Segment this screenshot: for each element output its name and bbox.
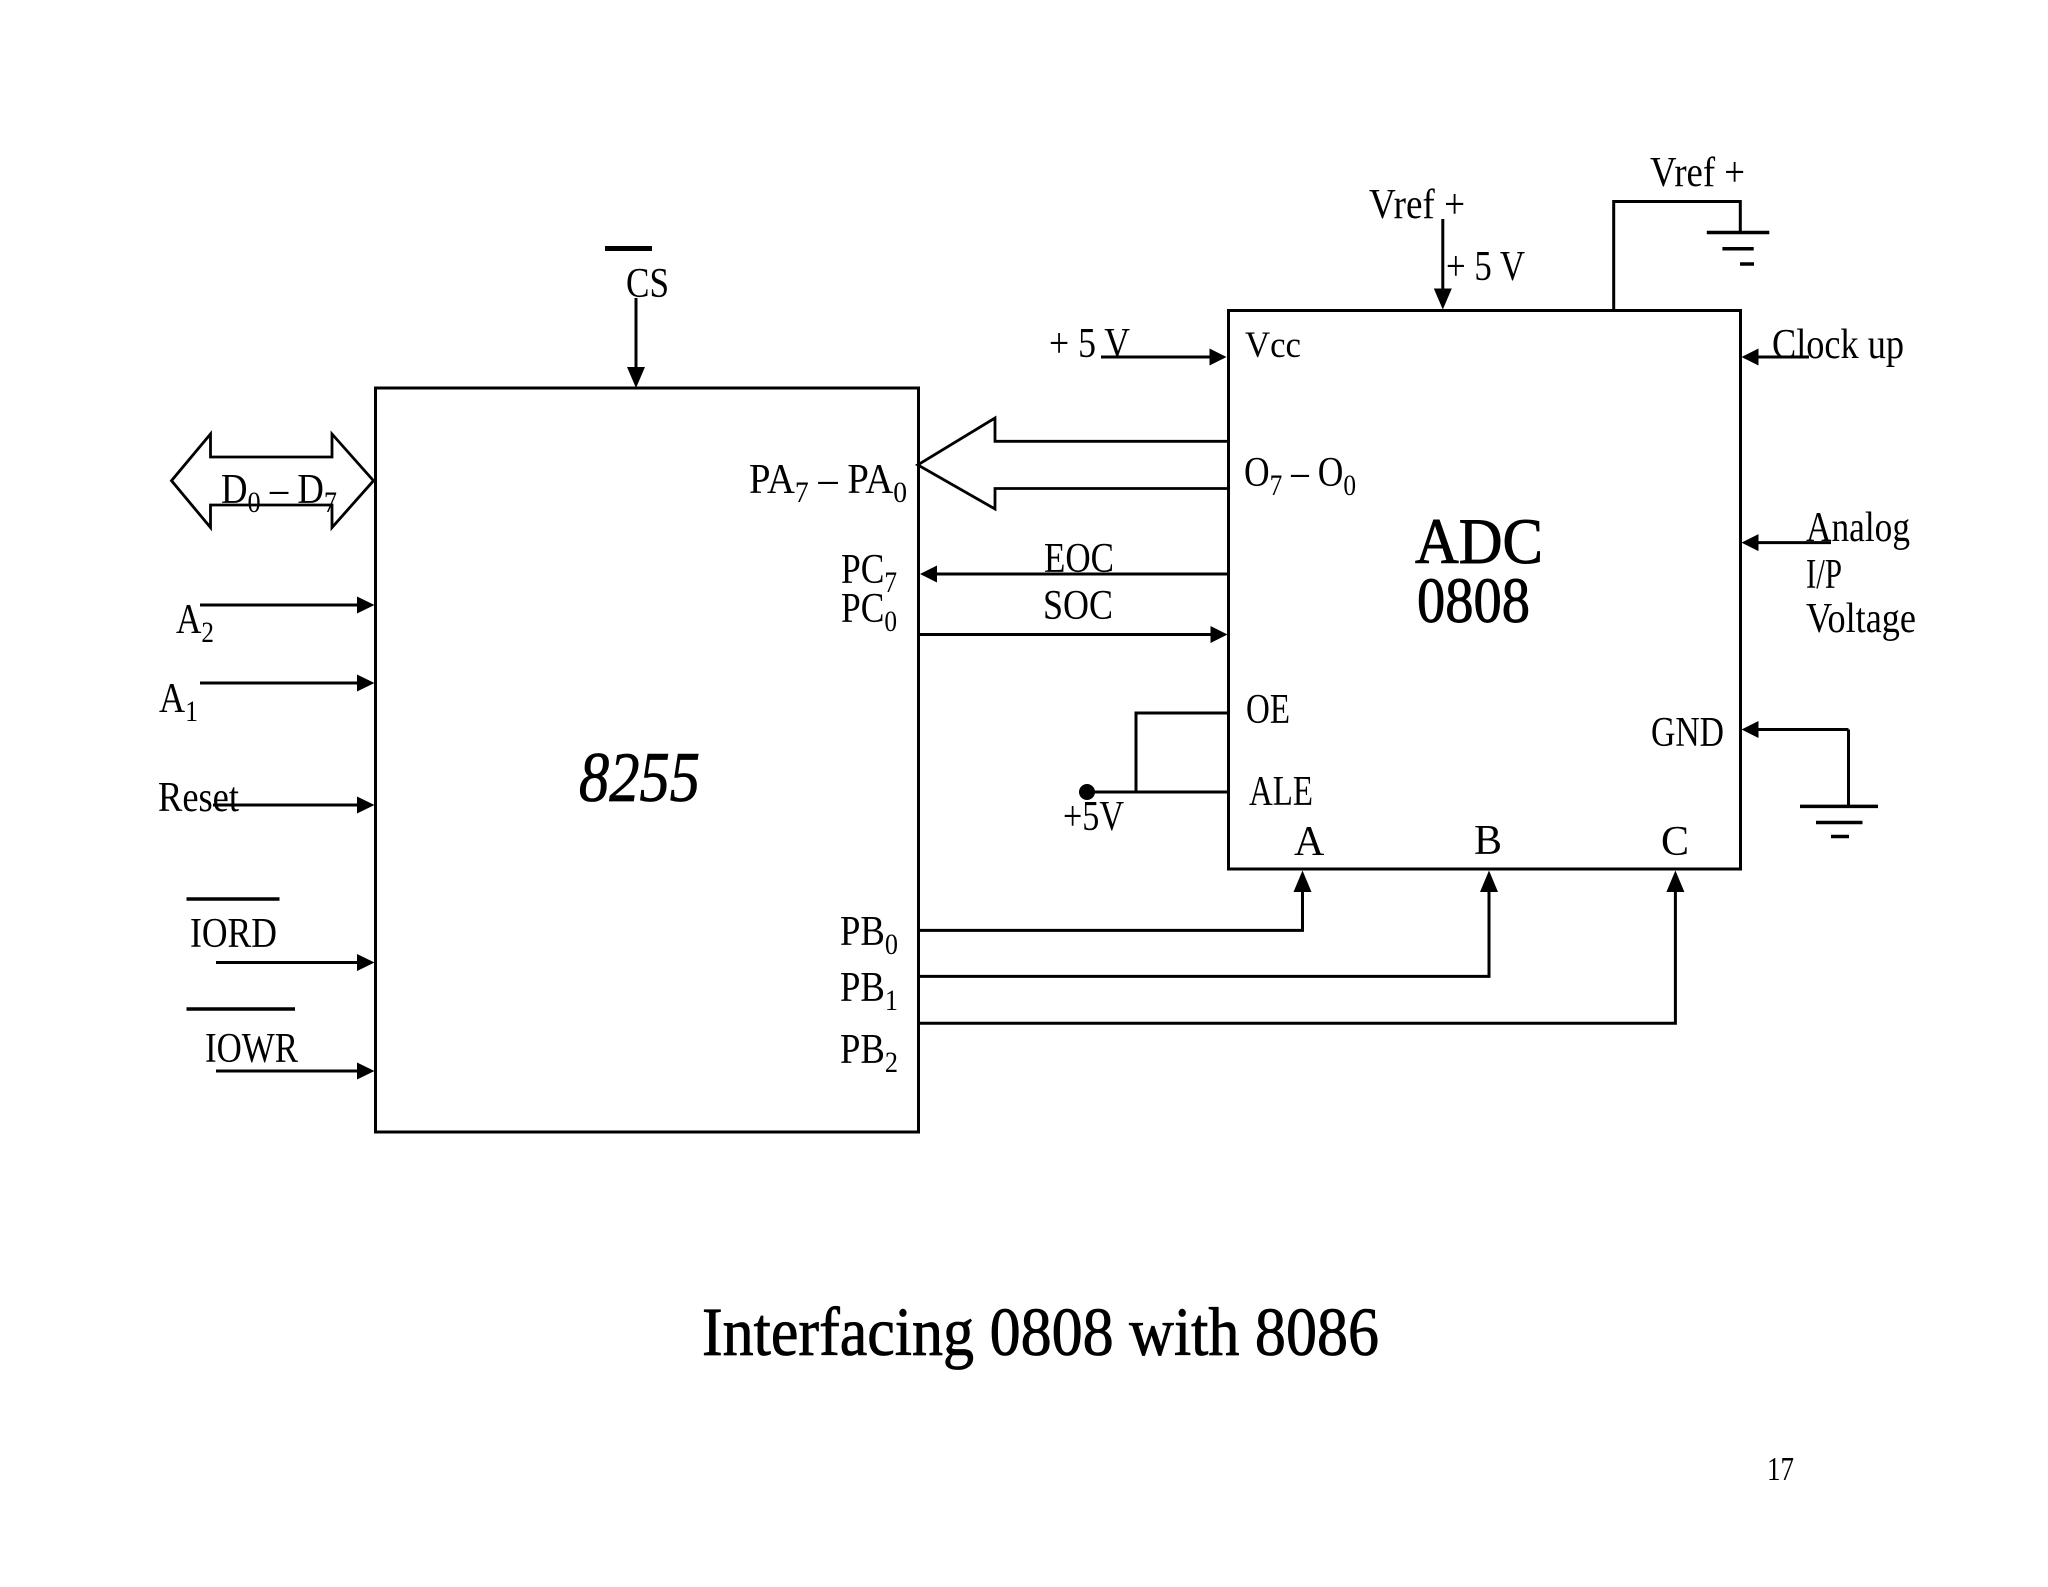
svg-text:0808: 0808 [1417,565,1530,637]
svg-text:IORD: IORD [190,911,277,957]
svg-text:I/P: I/P [1806,552,1842,598]
wire CS into 8255 top [635,298,638,370]
node +5V dot [1079,784,1095,800]
svg-text:+ 5 V: + 5 V [1446,244,1525,290]
svg-text:Voltage: Voltage [1806,596,1916,642]
IC U1 8255 box [376,388,919,1132]
svg-text:SOC: SOC [1043,583,1113,629]
wire ALE [1087,791,1229,794]
wire Vref+ to ground [1614,202,1741,311]
bus O7-O0 to PA7-PA0 hollow arrow [918,418,1229,509]
svg-text:8255: 8255 [579,739,700,817]
wire A1 [200,682,358,685]
wire IORD [216,961,358,964]
svg-text:Interfacing 0808 with 8086: Interfacing 0808 with 8086 [702,1294,1379,1370]
wire +5V to Vcc [1101,356,1210,359]
IC U2 ADC 0808 box [1229,311,1741,870]
wire Reset [213,804,358,807]
wire Vref+ into ADC top [1441,219,1444,292]
svg-text:OE: OE [1246,687,1290,733]
svg-text:PA7 – PA0: PA7 – PA0 [749,457,907,509]
svg-text:17: 17 [1767,1451,1794,1488]
svg-text:GND: GND [1651,710,1724,756]
wire PB2 to C [919,888,1676,1023]
svg-text:Vref +: Vref + [1369,182,1465,228]
svg-text:O7 – O0: O7 – O0 [1244,450,1356,502]
svg-text:Vref +: Vref + [1650,150,1745,196]
svg-text:+5V: +5V [1063,794,1124,840]
wire PB0 to A [919,888,1303,930]
svg-text:CS: CS [626,261,669,307]
wire A2 [200,604,358,607]
svg-text:D0 – D7: D0 – D7 [221,467,337,519]
svg-text:Clock up: Clock up [1772,322,1904,368]
wire Analog I/P Voltage [1757,541,1831,544]
ground (top right) [1707,231,1770,235]
svg-text:A: A [1294,819,1325,865]
svg-text:C: C [1661,819,1689,865]
svg-text:+ 5 V: + 5 V [1049,321,1130,367]
wire EOC [936,573,1229,576]
wire Clock up [1757,356,1809,359]
svg-text:Reset: Reset [158,775,239,821]
wire SOC [919,633,1212,636]
wire PB1 to B [919,888,1490,976]
svg-text:B: B [1474,818,1502,864]
wire OE stub [1136,713,1229,792]
label IORD (active low) [187,897,280,901]
svg-text:IOWR: IOWR [205,1026,298,1072]
ground (right) [1800,805,1878,809]
wire GND to ground [1757,728,1849,731]
label IOWR (active low) [187,1007,296,1011]
svg-text:ALE: ALE [1249,769,1313,815]
wire IOWR [216,1070,358,1073]
bus D0-D7 double arrow [172,434,374,528]
svg-text:Vcc: Vcc [1245,325,1301,366]
